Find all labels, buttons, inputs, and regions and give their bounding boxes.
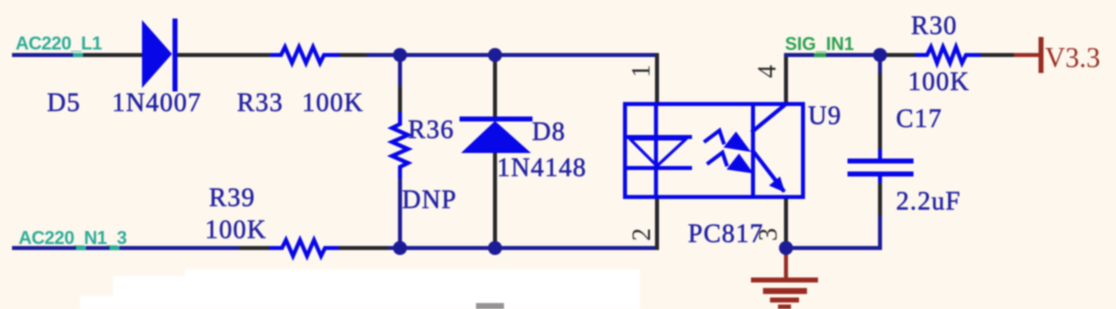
svg-text:PC817: PC817 bbox=[688, 219, 764, 248]
svg-text:3: 3 bbox=[754, 228, 783, 241]
svg-text:C17: C17 bbox=[896, 104, 942, 133]
svg-text:D5: D5 bbox=[47, 88, 81, 117]
svg-text:1N4148: 1N4148 bbox=[497, 153, 587, 182]
svg-text:U9: U9 bbox=[808, 101, 842, 130]
svg-text:100K: 100K bbox=[908, 67, 970, 96]
svg-text:1N4007: 1N4007 bbox=[112, 88, 202, 117]
svg-text:4: 4 bbox=[753, 65, 782, 78]
svg-text:D8: D8 bbox=[532, 117, 566, 146]
svg-text:R39: R39 bbox=[209, 183, 255, 212]
svg-text:100K: 100K bbox=[205, 215, 267, 244]
svg-text:V3.3: V3.3 bbox=[1045, 43, 1100, 74]
svg-text:1: 1 bbox=[627, 65, 656, 78]
svg-text:R33: R33 bbox=[237, 88, 283, 117]
svg-text:SIG_IN1: SIG_IN1 bbox=[785, 34, 854, 54]
svg-text:R36: R36 bbox=[408, 115, 454, 144]
svg-text:100K: 100K bbox=[302, 88, 364, 117]
svg-text:2.2uF: 2.2uF bbox=[896, 187, 961, 216]
svg-text:2: 2 bbox=[627, 228, 656, 241]
svg-text:DNP: DNP bbox=[402, 185, 457, 214]
svg-text:AC220_N1_3: AC220_N1_3 bbox=[19, 227, 127, 248]
svg-text:AC220_L1: AC220_L1 bbox=[16, 33, 102, 54]
svg-text:R30: R30 bbox=[911, 11, 957, 40]
